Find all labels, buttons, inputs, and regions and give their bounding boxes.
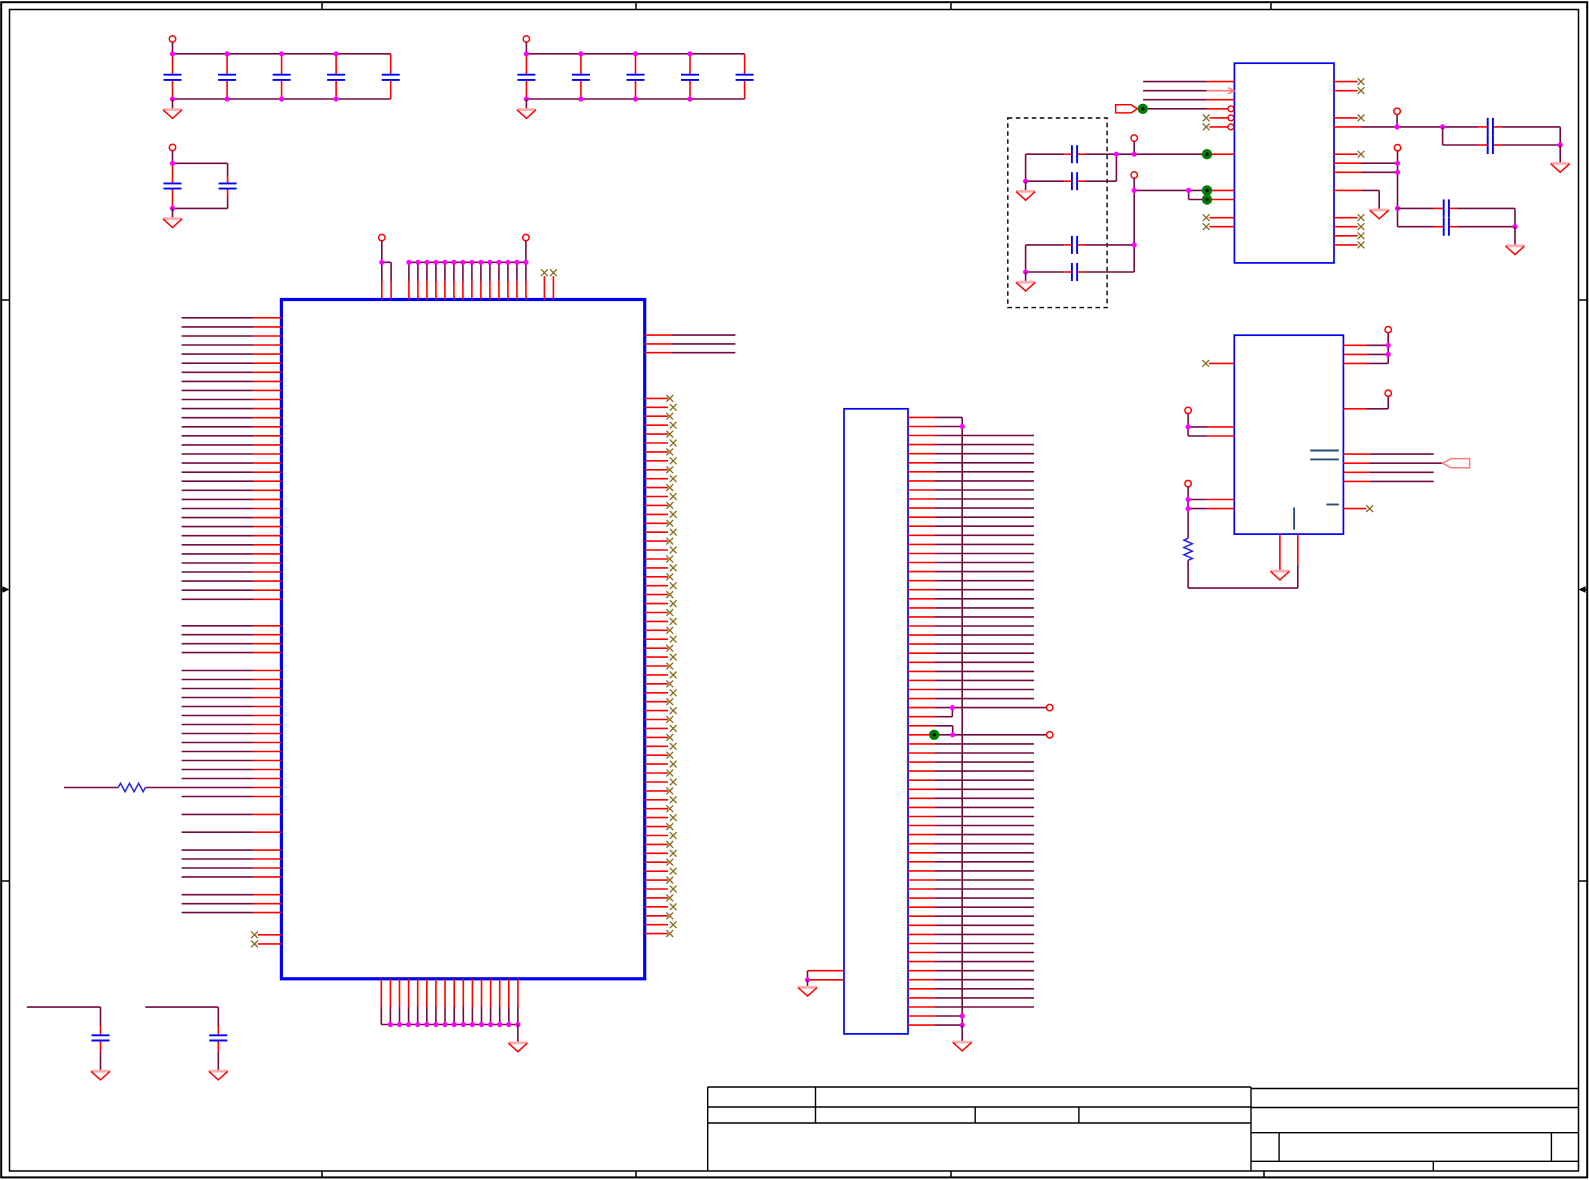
- capacitor C9: [689, 54, 691, 99]
- wire bottom rail cap bank1: [173, 98, 391, 100]
- junction dots cap network B left: [1395, 161, 1400, 211]
- junction dot cap network A right: [1558, 142, 1563, 147]
- junction dot U3 n9: [1186, 424, 1191, 429]
- wire U1 top pin pair jog: [382, 262, 391, 299]
- junction dots J1 bus: [960, 424, 965, 1028]
- wire top rail cap pair: [173, 162, 228, 164]
- title block right table: [1251, 1089, 1579, 1172]
- ground cap bank2: [525, 99, 527, 109]
- wire top rail cap bank1: [173, 53, 391, 55]
- junction dot crystal vertical: [1132, 242, 1137, 247]
- junction dots cap bank2: [524, 51, 693, 101]
- junction dot C18 left: [1023, 269, 1028, 274]
- wire U3 left pins n17 n18: [1188, 487, 1234, 539]
- capacitor C14: [145, 1007, 218, 1070]
- wire U2 left pin 4 inverted: [1148, 108, 1228, 110]
- capacitor C7: [580, 54, 582, 99]
- capacitor C13: [27, 1007, 101, 1070]
- no-connect pins U1 top: [544, 276, 553, 299]
- power pin P15: [1385, 390, 1391, 396]
- title block left table: [708, 1087, 1251, 1171]
- power pin P13: [1185, 480, 1191, 486]
- capacitor C11: [172, 163, 174, 208]
- power pin P7: [1047, 732, 1053, 738]
- wire U2 right pins n9 n10 to cap network B: [1334, 151, 1398, 227]
- net flag label F1: [1116, 105, 1138, 113]
- dashed box crystal section: [1008, 118, 1107, 308]
- power pin P14: [1385, 327, 1391, 333]
- ground J1 bus: [961, 1025, 963, 1041]
- green probe dots XTAL2: [1202, 185, 1212, 205]
- node VTOP junction dot: [379, 260, 384, 265]
- IC U2: [1234, 63, 1334, 263]
- wire bottom rail cap bank2: [526, 98, 744, 100]
- ground crystal bottom: [1025, 272, 1027, 281]
- net flag label F2: [1443, 459, 1470, 468]
- junction dots XTAL2: [1132, 188, 1192, 193]
- power pin P1: [169, 36, 175, 42]
- wire bundle J1 right pins: [908, 417, 1046, 1025]
- border zone ticks right: [1579, 300, 1588, 881]
- wire XTAL1 to U2: [1116, 153, 1234, 155]
- power pin P6: [1047, 704, 1053, 710]
- power pin P12: [1185, 407, 1191, 413]
- power pin P11: [1394, 145, 1400, 151]
- ground U1 bottom: [517, 1025, 519, 1042]
- junction dots cap bank1: [170, 51, 339, 101]
- no-connect pin U3 left: [1209, 362, 1234, 364]
- wire XTAL2 to U2: [1134, 190, 1234, 199]
- ground U2 pin n12: [1370, 210, 1389, 219]
- capacitor C20: [1443, 127, 1561, 145]
- wire R2 bottom loop: [1188, 534, 1298, 588]
- wire U2 right pin n5 to cap network A: [1334, 126, 1560, 128]
- green probe dot XTAL1: [1202, 149, 1212, 159]
- wire J1 left pins: [808, 971, 845, 980]
- wire cap network A right: [1559, 127, 1561, 145]
- no-connect pins U2 left bottom: [1210, 218, 1235, 227]
- ground cap network A: [1559, 145, 1561, 163]
- border center arrow right: [1579, 586, 1588, 593]
- ground cap pair: [172, 208, 174, 217]
- ground cap bank1: [172, 99, 174, 109]
- capacitor C12: [227, 163, 229, 208]
- no-connect X marks U2 right: [1358, 78, 1365, 248]
- border zone ticks left: [1, 300, 9, 881]
- no-connect X marks U1 right: [666, 395, 676, 937]
- no-connect pins U2 right: [1334, 82, 1358, 245]
- wire U1 top bus: [409, 262, 526, 299]
- power pin P8: [1131, 135, 1137, 141]
- capacitor C4: [335, 54, 337, 99]
- wire U2 left pin 2 with input arrow: [1143, 88, 1234, 94]
- junction dots U3 right top: [1386, 343, 1391, 357]
- wire U3 right pin n7: [1343, 396, 1388, 408]
- wire U2 left pin 3: [1143, 99, 1234, 101]
- ground crystal top: [1025, 181, 1027, 190]
- connector J1: [844, 409, 908, 1034]
- ground cap network B: [1514, 227, 1516, 245]
- power pin P9: [1131, 172, 1137, 178]
- wire U1 bottom bus: [381, 979, 518, 1025]
- junction dots XTAL1: [1114, 152, 1137, 157]
- IC U3: [1234, 335, 1343, 534]
- junction dots U1 top bus: [406, 260, 528, 265]
- wire J1 bus vertical: [961, 417, 963, 1025]
- wire U2 right pin n12 to ground: [1334, 190, 1379, 209]
- capacitor C22: [1398, 208, 1516, 226]
- resistor R1: [64, 787, 182, 789]
- power pin P10: [1394, 108, 1400, 114]
- border zone ticks top: [322, 2, 1271, 9]
- ground C13: [91, 1071, 110, 1080]
- junction dots cap pair: [170, 161, 175, 211]
- ground J1 left: [807, 980, 809, 987]
- power pin P5: [523, 234, 529, 240]
- pin name marks U3: [1294, 451, 1339, 530]
- wire bottom rail cap pair: [173, 207, 228, 209]
- junction dots U3 n17 n18: [1186, 497, 1191, 511]
- resistor R2: [1184, 538, 1192, 560]
- junction dot J1 left: [805, 977, 810, 982]
- power pin P3: [169, 144, 175, 150]
- ground C14: [209, 1071, 228, 1080]
- power pin P4: [379, 234, 385, 240]
- junction dots J1 mid taps: [950, 705, 956, 737]
- capacitor C17: [1026, 244, 1135, 246]
- wire U3 right pins top three: [1343, 333, 1388, 363]
- border zone ticks bottom: [322, 1171, 1264, 1177]
- capacitor C6: [525, 54, 527, 99]
- capacitor C19: [1488, 118, 1493, 136]
- capacitor C1: [172, 54, 174, 99]
- no-connect pin bundle U1 right: [645, 398, 668, 933]
- capacitor C2: [226, 54, 228, 99]
- wire bundle U1 left pins: [182, 318, 282, 913]
- capacitor C3: [281, 54, 283, 99]
- ground U3 bottom: [1279, 534, 1281, 570]
- capacitor C15: [1026, 153, 1117, 155]
- junction dot C16 left: [1023, 179, 1028, 184]
- no-connect pins U1 left: [258, 935, 281, 944]
- wire U3 left pins n9 n10: [1188, 414, 1234, 436]
- border center arrow left: [1, 586, 9, 593]
- wire U2 left pin 1: [1143, 81, 1234, 83]
- capacitor C10: [744, 54, 746, 99]
- green probe dot F1: [1138, 104, 1148, 114]
- no-connect pins U2 left inverted: [1210, 115, 1234, 130]
- IC U1: [281, 300, 644, 979]
- wire top rail cap bank2: [526, 53, 744, 55]
- capacitor C16: [1026, 154, 1117, 181]
- green probe dot J1 pin: [929, 730, 939, 740]
- capacitor C18: [1026, 190, 1135, 272]
- power pin P2: [523, 36, 529, 42]
- capacitor C5: [390, 54, 392, 99]
- junction dot cap network B right: [1512, 224, 1517, 229]
- wire bundle U3 right data pins: [1343, 454, 1442, 481]
- no-connect pin U3 right: [1343, 508, 1366, 510]
- wire bundle U1 right top: [645, 335, 736, 353]
- junction dots U1 bottom bus: [388, 1022, 521, 1027]
- capacitor C8: [635, 54, 637, 99]
- junction dots cap network A top: [1395, 124, 1446, 129]
- capacitor C21: [1398, 207, 1516, 209]
